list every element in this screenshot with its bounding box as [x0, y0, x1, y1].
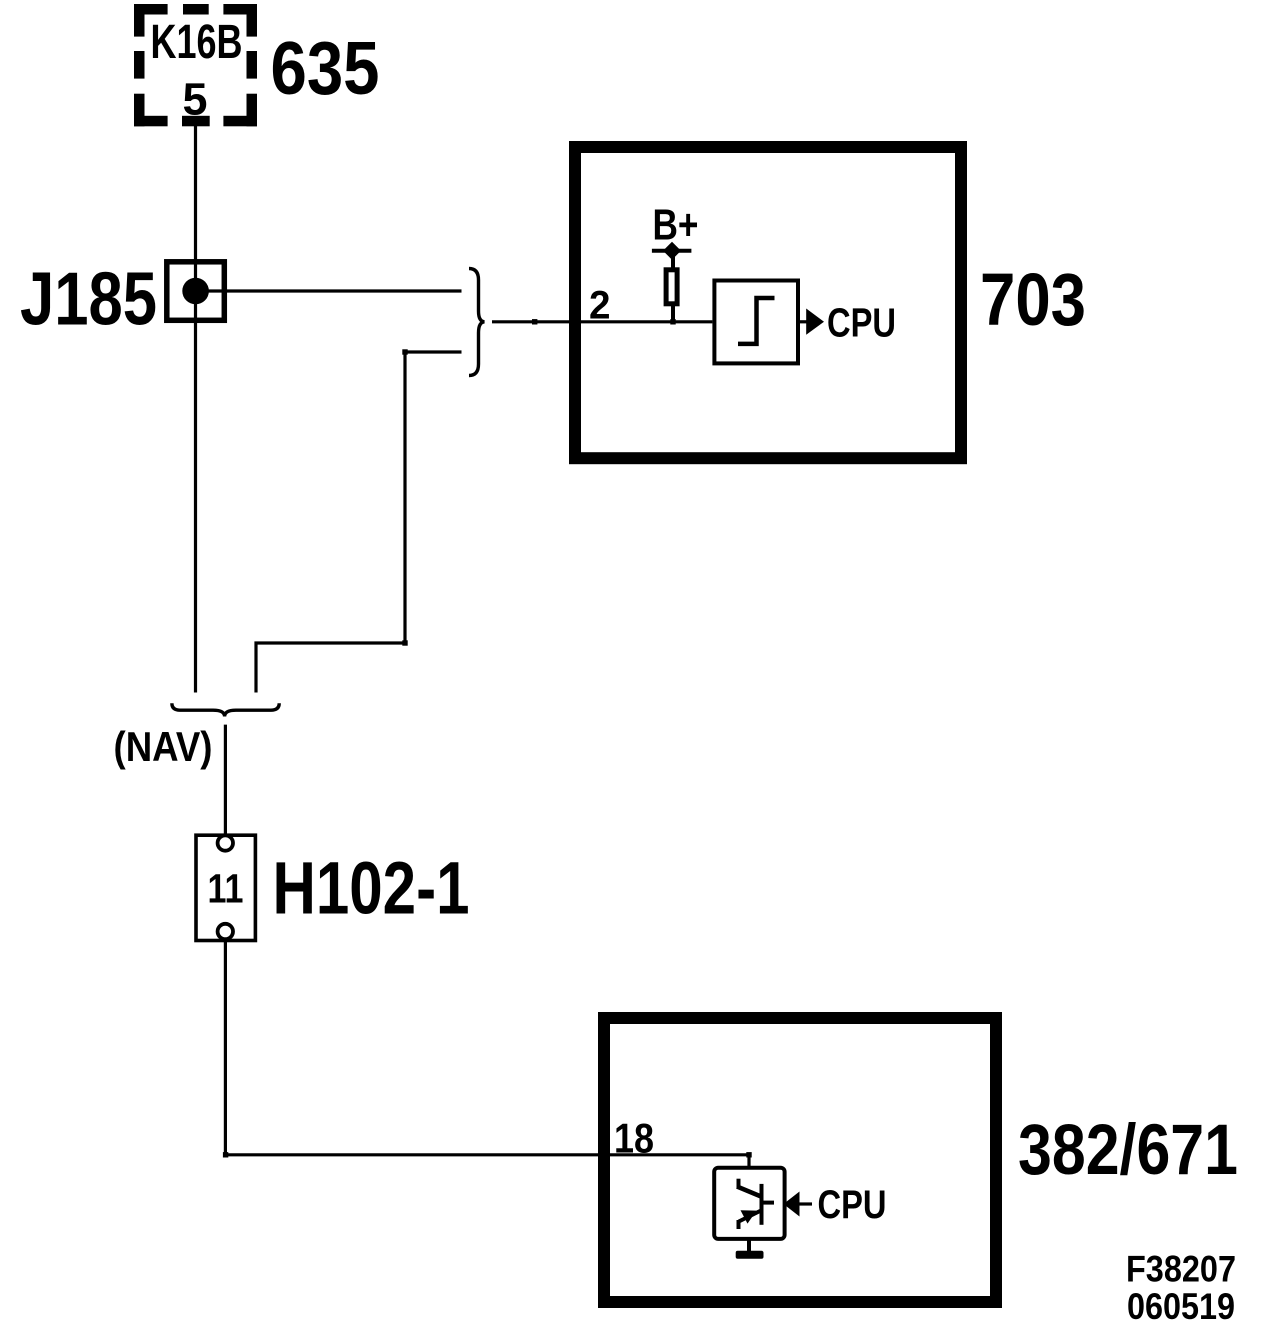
- wire brace to control module 703 pin 2: [492, 320, 712, 323]
- junction box J185: [167, 262, 225, 321]
- B+ terminal dot: [663, 242, 681, 260]
- transistor emitter arrowhead: [741, 1210, 757, 1223]
- wire second branch from brace down and left: [256, 352, 462, 693]
- svg-text:11: 11: [208, 865, 244, 911]
- relay K16B dashed box (unit 635): [134, 4, 257, 126]
- svg-text:(NAV): (NAV): [114, 723, 213, 770]
- svg-text:703: 703: [980, 258, 1086, 341]
- B+ terminal bar: [652, 249, 692, 253]
- control module 703 box: [575, 147, 961, 458]
- arrow to CPU: [806, 309, 824, 335]
- svg-text:H102-1: H102-1: [273, 846, 470, 929]
- schmitt trigger box: [714, 281, 798, 364]
- wire B+ to resistor: [671, 250, 675, 270]
- wire corner tick: [746, 1152, 751, 1157]
- wire corner tick: [402, 349, 407, 354]
- schmitt trigger step symbol: [738, 298, 775, 344]
- transistor base bar: [760, 1184, 764, 1225]
- ground bar: [736, 1251, 764, 1259]
- junction tick: [670, 319, 675, 324]
- wire CPU arrow tail: [799, 1202, 812, 1205]
- connector bottom terminal circle: [218, 924, 233, 939]
- svg-text:CPU: CPU: [818, 1183, 887, 1227]
- transistor base lead: [762, 1201, 775, 1205]
- svg-text:5: 5: [183, 74, 208, 125]
- svg-text:F38207: F38207: [1126, 1249, 1236, 1290]
- wire NAV brace to connector H102-1: [224, 725, 227, 836]
- junction dot J185: [182, 278, 209, 305]
- wire splice tick: [532, 319, 537, 324]
- connector top terminal circle: [218, 835, 233, 850]
- wire driver box to ground: [747, 1239, 751, 1252]
- NAV merge brace: [172, 703, 279, 716]
- svg-text:2: 2: [589, 283, 611, 327]
- wire J185 down to NAV brace: [194, 323, 197, 693]
- brace merging wires into 703: [469, 269, 485, 376]
- svg-text:382/671: 382/671: [1018, 1111, 1238, 1190]
- wire trigger to CPU arrow: [798, 320, 807, 323]
- wire K16B pin5 to J185: [194, 126, 197, 323]
- svg-text:J185: J185: [20, 257, 157, 341]
- wire H102-1 down to 382/671 pin 18: [225, 940, 749, 1167]
- svg-text:B+: B+: [653, 202, 699, 250]
- transistor emitter stub: [737, 1220, 741, 1229]
- arrow from CPU: [784, 1192, 800, 1217]
- pull-up resistor: [666, 270, 677, 304]
- output driver box: [714, 1168, 784, 1239]
- transistor collector stub: [737, 1179, 741, 1189]
- svg-text:060519: 060519: [1127, 1286, 1235, 1327]
- wire resistor to input wire: [671, 304, 675, 322]
- wire corner tick: [402, 640, 407, 645]
- svg-text:K16B: K16B: [151, 15, 243, 69]
- control module 382/671 box: [604, 1018, 996, 1302]
- svg-text:18: 18: [614, 1114, 654, 1161]
- wire J185 to brace (upper): [196, 289, 462, 292]
- wire corner tick: [223, 1152, 228, 1157]
- connector H102-1 body: [196, 835, 255, 940]
- transistor collector diagonal: [737, 1187, 761, 1197]
- svg-text:CPU: CPU: [827, 299, 896, 345]
- transistor emitter diagonal: [739, 1211, 761, 1222]
- svg-text:635: 635: [271, 26, 380, 110]
